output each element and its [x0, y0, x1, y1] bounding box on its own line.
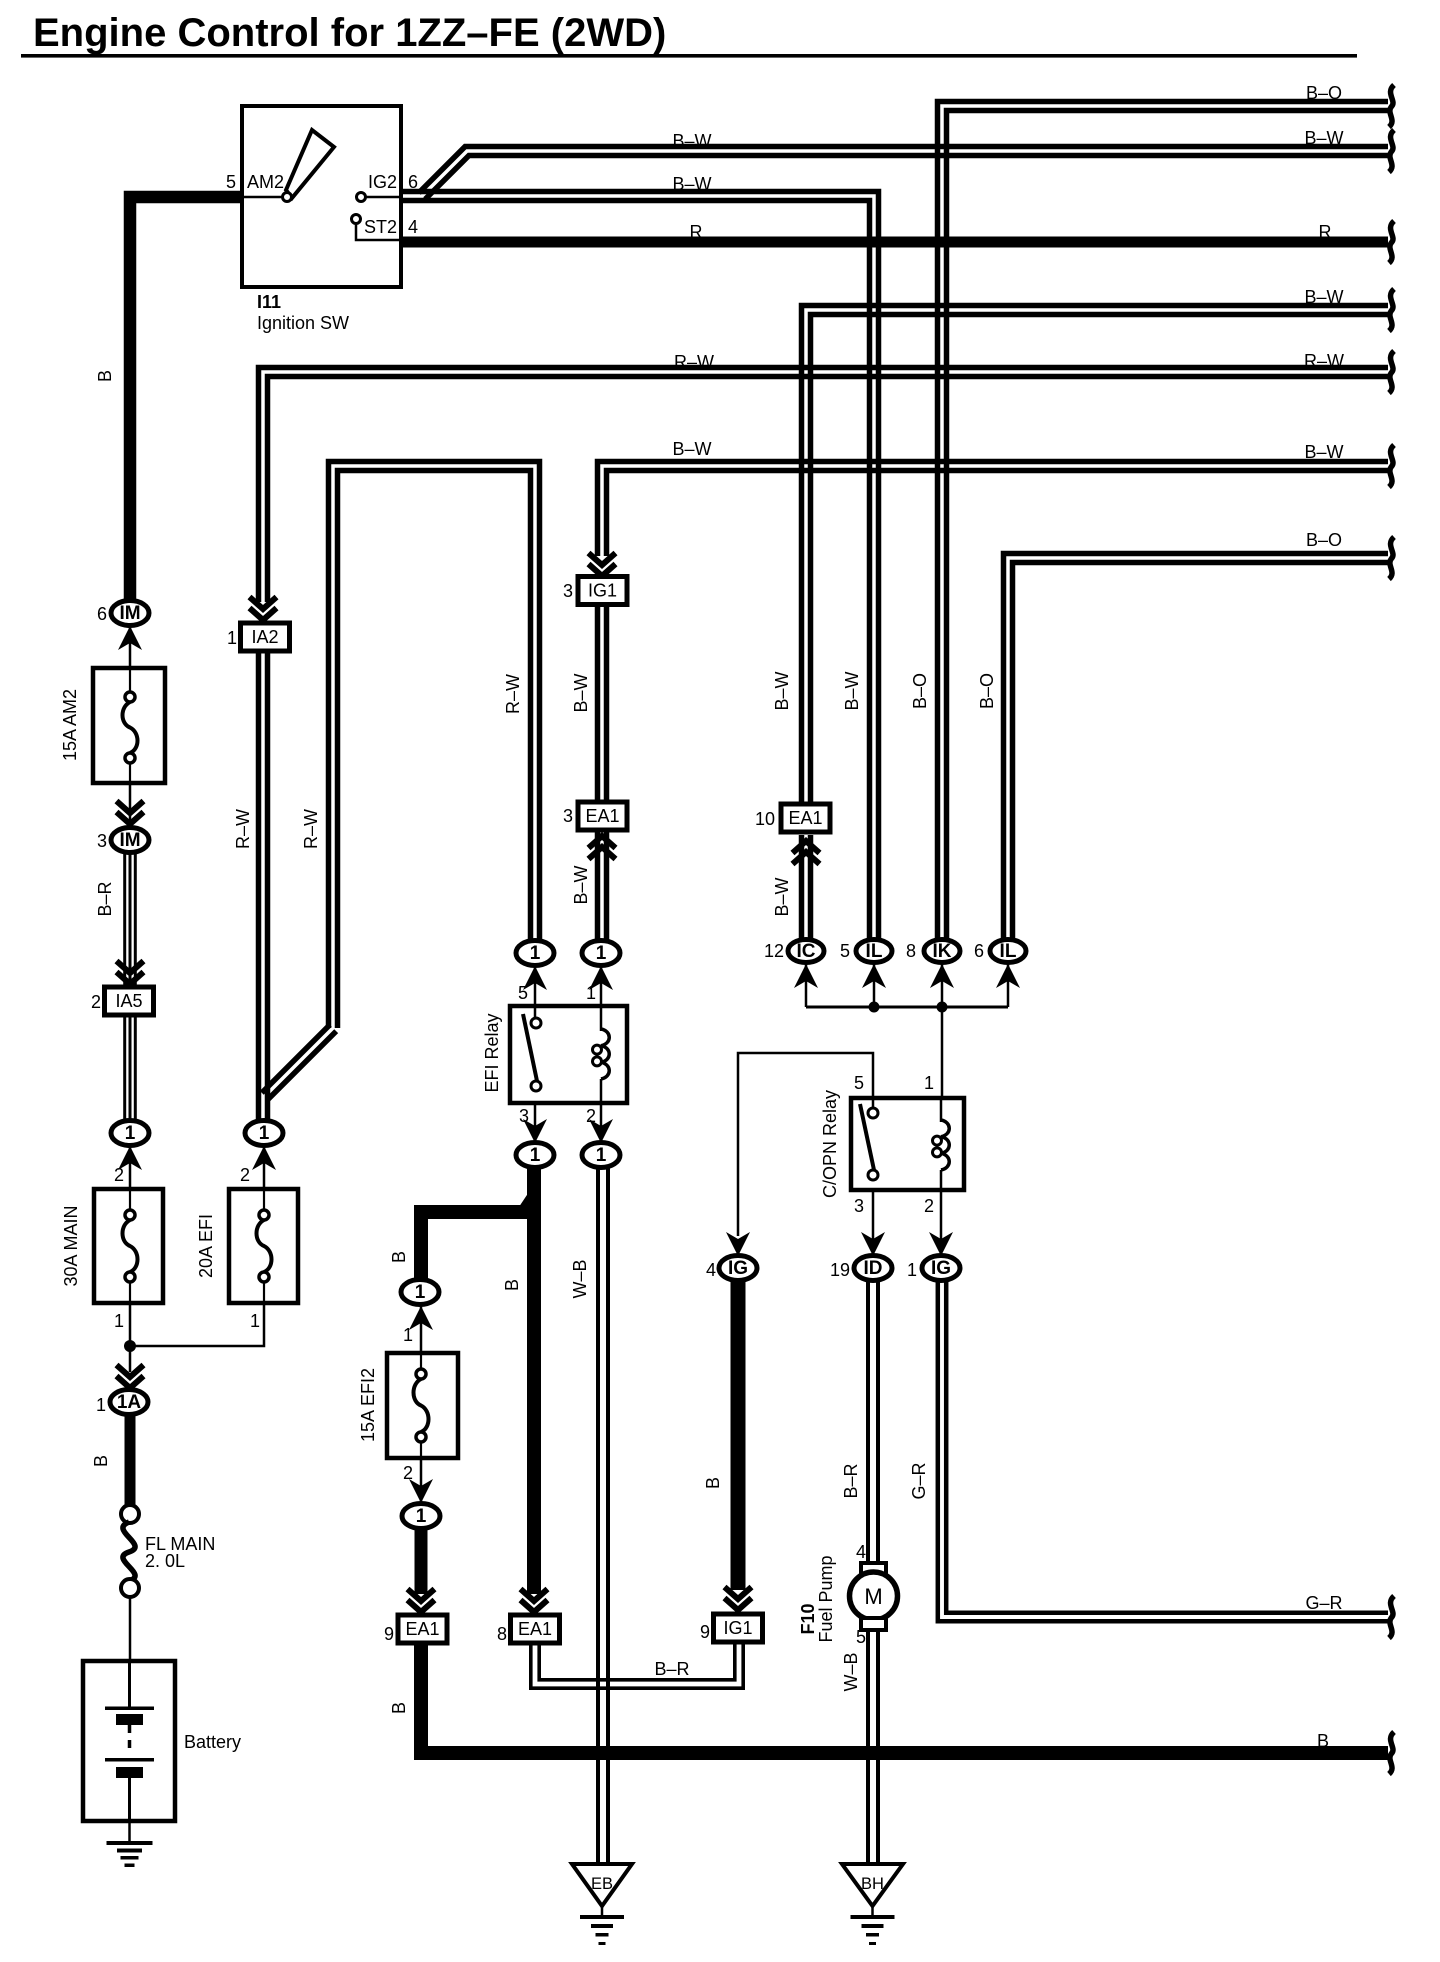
svg-text:R–W: R–W [503, 674, 523, 714]
svg-text:R–W: R–W [674, 352, 714, 372]
svg-text:B–O: B–O [977, 673, 997, 709]
svg-text:2: 2 [240, 1165, 250, 1185]
svg-text:C/OPN Relay: C/OPN Relay [820, 1090, 840, 1198]
svg-text:1: 1 [924, 1073, 934, 1093]
svg-text:F10: F10 [798, 1603, 818, 1634]
connector 1 below 15A EFI2 [402, 1504, 440, 1529]
C/OPN pin 3 to 19 ID [872, 1190, 875, 1257]
svg-text:W–B: W–B [841, 1652, 861, 1691]
wire B-W from IG2 pin 6 down IL column [401, 201, 870, 946]
contact IG2 pin 6 [365, 196, 400, 199]
svg-text:B–W: B–W [1304, 287, 1343, 307]
arrow into 1A [117, 1376, 144, 1388]
svg-text:20A EFI: 20A EFI [196, 1214, 216, 1278]
arrow into 10 EA1 from below [793, 841, 820, 853]
arrow into connector from below [420, 1305, 423, 1353]
svg-text:1: 1 [96, 1395, 106, 1415]
wire W-B from fuel pump to BH ground [866, 1630, 870, 1864]
svg-text:9: 9 [384, 1624, 394, 1644]
arrow into 9 EA1 [408, 1600, 435, 1612]
ground triangle EB [572, 1864, 632, 1906]
wire B-O from IK column to right edge [947, 111, 1389, 946]
relay C/OPN Relay [851, 1098, 964, 1190]
svg-text:5: 5 [518, 983, 528, 1003]
page connector G-R [1389, 1596, 1394, 1638]
arrow into IG1 [589, 564, 616, 576]
fuse 30A MAIN [94, 1189, 163, 1303]
wire B thick from 4 IG to 9 IG1 [731, 1280, 746, 1590]
ground triangle BH [842, 1864, 903, 1906]
EFI relay switch [523, 1014, 537, 1081]
svg-text:1: 1 [530, 943, 541, 964]
svg-text:B–W: B–W [1304, 442, 1343, 462]
connector 1 below EFI relay pin 2 [582, 1143, 620, 1168]
arrow into 4 IG [726, 1232, 750, 1256]
wire to connector 3 IM [129, 783, 132, 828]
svg-text:EA1: EA1 [405, 1619, 439, 1639]
EFI relay pin 2 to connector [600, 1103, 603, 1144]
C/OPN relay pin stubs [872, 1098, 875, 1108]
svg-text:IA2: IA2 [251, 627, 278, 647]
svg-text:G–R: G–R [1305, 1593, 1342, 1613]
page connector B-O [1389, 537, 1394, 579]
svg-text:1: 1 [596, 1145, 607, 1166]
fuse 20A EFI [229, 1189, 298, 1303]
svg-text:M: M [864, 1584, 882, 1609]
wire 15A EFI2 pin 2 to connector [420, 1458, 423, 1504]
page connector B-W [1389, 289, 1394, 331]
EFI relay pin 3 to connector [534, 1103, 537, 1144]
wire B thick from connector to 8 EA1 [527, 1167, 541, 1594]
arrow into connector 1 [252, 1146, 276, 1170]
junction node on bus [869, 1002, 880, 1013]
svg-text:1: 1 [530, 1145, 541, 1166]
svg-text:B: B [502, 1279, 522, 1291]
connector 1 above 15A EFI2 [401, 1280, 439, 1305]
svg-text:1: 1 [125, 1123, 136, 1144]
svg-text:3: 3 [563, 806, 573, 826]
svg-text:R–W: R–W [233, 809, 253, 849]
connector 1 above EFI relay pin 1 [582, 941, 620, 966]
fuel pump F10 [861, 1563, 886, 1575]
svg-text:B: B [1317, 1731, 1329, 1751]
arrow into IM [129, 626, 132, 668]
wire bus to C/OPN relay pin 1 [941, 1007, 944, 1122]
svg-text:EA1: EA1 [585, 806, 619, 826]
arrow into 9 IG1 [725, 1598, 752, 1610]
wire junction to 20A EFI pin 1 [130, 1303, 264, 1346]
svg-text:9: 9 [700, 1622, 710, 1642]
svg-text:B–R: B–R [654, 1659, 689, 1679]
connector 1 below EFI relay pin 3 [516, 1143, 554, 1168]
svg-text:B: B [389, 1702, 409, 1714]
svg-text:15A AM2: 15A AM2 [60, 689, 80, 761]
wire 30A MAIN to junction [129, 1303, 132, 1372]
wire 20A EFI pin 2 to connector [263, 1145, 266, 1189]
connector 1 above 20A EFI [245, 1121, 283, 1146]
svg-text:IG2: IG2 [368, 172, 397, 192]
arrow into 3 IM [117, 812, 144, 824]
C/OPN relay switch [860, 1104, 874, 1170]
svg-text:2: 2 [91, 992, 101, 1012]
wire R-W from IA2 to right edge [268, 377, 1389, 603]
svg-text:IM: IM [119, 603, 140, 624]
svg-text:G–R: G–R [909, 1462, 929, 1499]
svg-text:B–W: B–W [1304, 128, 1343, 148]
wire B-W from IG1 to EA1 [595, 603, 601, 803]
junction node on bus 2 [937, 1002, 948, 1013]
connector 1 above 30A MAIN [111, 1121, 149, 1146]
page connector B [1389, 1732, 1394, 1774]
wire B-R from 19 ID to fuel pump [866, 1281, 870, 1563]
arrows into connectors from below [805, 963, 808, 1007]
svg-text:3: 3 [854, 1196, 864, 1216]
battery ground [128, 1821, 131, 1843]
svg-text:IL: IL [866, 941, 883, 962]
svg-text:B–W: B–W [842, 671, 862, 710]
svg-text:6: 6 [974, 941, 984, 961]
svg-text:5: 5 [226, 172, 236, 192]
svg-text:10: 10 [755, 809, 775, 829]
arrow into 8 EA1 [521, 1600, 548, 1612]
svg-text:R: R [690, 222, 703, 242]
svg-text:2: 2 [586, 1106, 596, 1126]
wire to battery [129, 1597, 132, 1661]
contact AM2 pin 5 [243, 196, 283, 199]
svg-text:3: 3 [563, 581, 573, 601]
svg-text:IA5: IA5 [115, 991, 142, 1011]
svg-text:5: 5 [856, 1627, 866, 1647]
svg-text:Ignition SW: Ignition SW [257, 313, 349, 333]
svg-text:B–W: B–W [571, 865, 591, 904]
svg-text:IC: IC [797, 941, 816, 962]
svg-text:B: B [91, 1455, 111, 1467]
svg-text:B–O: B–O [1306, 83, 1342, 103]
arrow into EA1 from below [589, 836, 616, 848]
svg-text:1: 1 [586, 983, 596, 1003]
svg-text:1: 1 [416, 1506, 427, 1527]
wire B-R from 8 EA1 to 9 IG1 [531, 1642, 743, 1688]
svg-text:B: B [95, 370, 115, 382]
wire G-R from 1 IG to right edge [938, 1281, 1388, 1621]
arrow below connector 1 [129, 1145, 132, 1189]
svg-text:4: 4 [408, 217, 418, 237]
svg-text:1: 1 [250, 1311, 260, 1331]
page connector B-W [1389, 130, 1394, 172]
wire W-B from EFI relay to EB ground [596, 1167, 600, 1864]
svg-text:B–R: B–R [841, 1463, 861, 1498]
svg-text:12: 12 [764, 941, 784, 961]
arrow into IA2 [250, 608, 277, 620]
wire B thick from AM2 pin 5 to connector IM [130, 197, 243, 602]
wire B thick from 9 EA1 to right edge [421, 1642, 1388, 1753]
wire B-W from 10 EA1 down to 12 IC [799, 835, 805, 945]
EFI relay pin stubs [534, 1006, 537, 1018]
svg-text:6: 6 [97, 604, 107, 624]
relay EFI Relay [510, 1006, 627, 1103]
svg-text:5: 5 [840, 941, 850, 961]
fusible link FL MAIN 2.0L [121, 1505, 139, 1523]
wire B thick from 1A to fusible link [125, 1414, 136, 1506]
svg-text:B–W: B–W [571, 673, 591, 712]
svg-text:I11: I11 [257, 292, 281, 312]
fuse 15A EFI2 [387, 1353, 458, 1458]
svg-text:1A: 1A [117, 1392, 142, 1413]
svg-text:B: B [389, 1251, 409, 1263]
svg-text:EFI Relay: EFI Relay [482, 1013, 502, 1092]
svg-text:3: 3 [519, 1106, 529, 1126]
EFI relay coil [601, 1029, 609, 1079]
svg-text:1: 1 [415, 1282, 426, 1303]
svg-text:1: 1 [227, 628, 237, 648]
svg-text:R: R [1319, 222, 1332, 242]
battery [83, 1661, 175, 1821]
svg-text:B–W: B–W [672, 174, 711, 194]
svg-text:5: 5 [854, 1073, 864, 1093]
wire R-W from IA2 down to 20A EFI connector [256, 650, 262, 1122]
wire B-R from IA5 to connector [123, 1014, 126, 1121]
svg-text:B: B [703, 1477, 723, 1489]
svg-text:EB: EB [591, 1875, 613, 1893]
svg-text:Fuel Pump: Fuel Pump [816, 1555, 836, 1642]
svg-text:IG: IG [728, 1258, 748, 1279]
wire R from ST2 pin 4 to right edge [401, 237, 1388, 248]
contact ST2 pin 4 [356, 224, 400, 240]
svg-text:4: 4 [856, 1542, 866, 1562]
page connector R-W [1389, 351, 1394, 393]
wire B-O from IL column to right edge [1013, 563, 1389, 946]
ignition switch I11 box [242, 106, 401, 287]
svg-text:IL: IL [1000, 941, 1017, 962]
svg-text:19: 19 [830, 1260, 850, 1280]
svg-text:Engine Control for 1ZZ–FE (2WD: Engine Control for 1ZZ–FE (2WD) [33, 11, 666, 55]
svg-text:8: 8 [497, 1624, 507, 1644]
svg-text:BH: BH [861, 1875, 884, 1893]
wire pin5 feed to 4 IG [738, 1053, 873, 1236]
svg-text:B–O: B–O [1306, 530, 1342, 550]
page connector B-O [1389, 85, 1394, 127]
svg-text:3: 3 [97, 831, 107, 851]
page connector B-W [1389, 445, 1394, 487]
connector 1 above EFI relay pin 5 [516, 941, 554, 966]
svg-text:Battery: Battery [184, 1732, 241, 1752]
svg-text:IG1: IG1 [723, 1618, 752, 1638]
bus wire below connectors [806, 1006, 1008, 1009]
svg-text:2. 0L: 2. 0L [145, 1551, 185, 1571]
junction node [124, 1340, 136, 1352]
svg-text:2: 2 [924, 1196, 934, 1216]
svg-text:B–W: B–W [772, 877, 792, 916]
svg-text:R–W: R–W [301, 809, 321, 849]
svg-text:2: 2 [114, 1165, 124, 1185]
svg-text:4: 4 [706, 1260, 716, 1280]
svg-text:8: 8 [906, 941, 916, 961]
svg-text:B–R: B–R [95, 881, 115, 916]
svg-text:W–B: W–B [570, 1259, 590, 1298]
svg-text:IM: IM [119, 830, 140, 851]
svg-text:ST2: ST2 [364, 217, 397, 237]
svg-text:EA1: EA1 [788, 808, 822, 828]
svg-text:1: 1 [259, 1123, 270, 1144]
ignition switch lever [286, 130, 334, 198]
wire B-W from EA1 to EFI relay connector [595, 829, 601, 941]
arrow into IA5 [117, 972, 144, 984]
wire B-W from IG1 column to right edge [607, 471, 1389, 557]
svg-text:IG: IG [931, 1258, 951, 1279]
svg-text:30A MAIN: 30A MAIN [61, 1205, 81, 1286]
page connector R [1389, 221, 1394, 263]
svg-text:IK: IK [933, 941, 952, 962]
wire B thick to 9 EA1 [415, 1528, 428, 1594]
svg-text:1: 1 [596, 943, 607, 964]
svg-text:B–W: B–W [672, 131, 711, 151]
svg-text:2: 2 [403, 1463, 413, 1483]
svg-text:B–W: B–W [772, 671, 792, 710]
svg-text:1: 1 [403, 1325, 413, 1345]
svg-text:1: 1 [114, 1311, 124, 1331]
wire B-R from IM to IA5 [123, 852, 126, 986]
svg-text:IG1: IG1 [588, 581, 617, 601]
svg-text:B–O: B–O [910, 673, 930, 709]
svg-text:ID: ID [864, 1258, 883, 1279]
svg-text:1: 1 [907, 1260, 917, 1280]
C/OPN relay coil [941, 1120, 949, 1170]
svg-text:15A EFI2: 15A EFI2 [358, 1368, 378, 1442]
wire B-W from EA1 column to right edge [811, 315, 1389, 813]
wire R-W loop from 20A EFI connector to EFI relay pin 5 [338, 471, 531, 1029]
svg-text:R–W: R–W [1304, 351, 1344, 371]
C/OPN pin 2 to 1 IG [940, 1190, 943, 1257]
wire B-W from IG2 diagonal to right edge [425, 156, 1388, 200]
svg-text:EA1: EA1 [518, 1619, 552, 1639]
svg-text:AM2: AM2 [247, 172, 284, 192]
svg-text:B–W: B–W [672, 439, 711, 459]
wire B thick branch to 15A EFI2 [421, 1197, 534, 1281]
fuse 15A AM2 [93, 668, 165, 783]
